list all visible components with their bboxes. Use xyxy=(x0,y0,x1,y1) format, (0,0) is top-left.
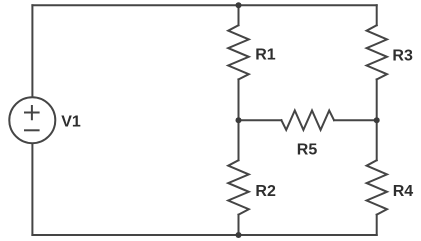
wire left rail upper (top rail to V1) xyxy=(31,5,33,96)
wire middle branch node A to R2 xyxy=(238,120,240,160)
resistor R4 xyxy=(367,160,387,215)
resistor R5 xyxy=(281,111,334,130)
junction dot node A (middle branch, mid rail) xyxy=(236,117,242,123)
wire bottom rail xyxy=(32,234,376,236)
resistor R2 xyxy=(228,160,249,215)
wire right branch node B to R4 xyxy=(376,120,378,160)
wire R5 right lead to node B xyxy=(334,119,377,121)
svg-text:R5: R5 xyxy=(297,142,318,159)
svg-text:R4: R4 xyxy=(393,183,414,200)
svg-text:R3: R3 xyxy=(392,48,413,65)
svg-text:R2: R2 xyxy=(255,183,276,200)
svg-text:R1: R1 xyxy=(255,46,276,63)
resistor R3 xyxy=(367,25,387,79)
V1 plus sign xyxy=(24,105,40,120)
resistor R1 xyxy=(228,25,249,79)
junction dot bottom node xyxy=(236,232,242,238)
wire right branch R4 to bottom rail xyxy=(376,215,378,235)
wire middle branch upper lead xyxy=(238,5,240,25)
junction dot node B (right branch, mid rail) xyxy=(374,117,380,123)
wire middle branch R1 to node A xyxy=(238,79,240,120)
wire left rail lower (V1 to bottom rail) xyxy=(31,144,33,235)
wire middle branch R2 to bottom rail xyxy=(238,215,240,235)
junction dot top node xyxy=(236,2,242,8)
V1 minus sign xyxy=(24,129,40,131)
wire top rail xyxy=(32,4,376,6)
wire R5 left lead from node A xyxy=(239,119,282,121)
wire right branch upper lead xyxy=(376,5,378,25)
wire right branch R3 to node B xyxy=(376,79,378,120)
svg-text:V1: V1 xyxy=(61,114,81,131)
voltage source V1 xyxy=(9,97,55,143)
